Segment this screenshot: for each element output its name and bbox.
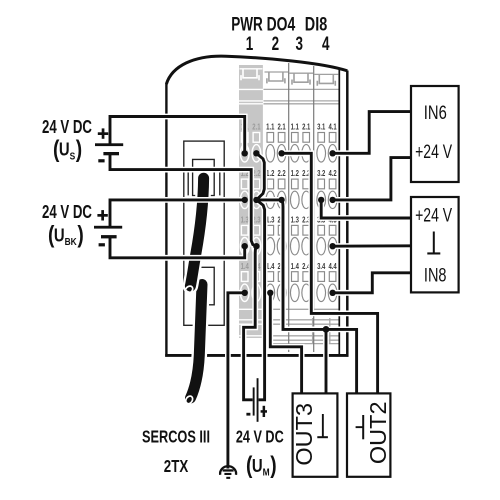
svg-text:4.2: 4.2 (328, 168, 336, 178)
svg-text:3.1: 3.1 (317, 121, 325, 131)
svg-text:4.1: 4.1 (328, 121, 336, 131)
svg-text:1.2: 1.2 (266, 168, 274, 178)
svg-text:1.1: 1.1 (266, 121, 274, 131)
svg-text:U: U (59, 139, 70, 160)
svg-text:1.4: 1.4 (241, 261, 250, 271)
svg-text:3.2: 3.2 (317, 168, 325, 178)
svg-text:IN6: IN6 (424, 102, 447, 123)
svg-text:): ) (270, 451, 276, 479)
svg-text:1.4: 1.4 (266, 261, 275, 271)
svg-text:DO4: DO4 (267, 13, 296, 35)
svg-text:1.4: 1.4 (291, 261, 300, 271)
svg-text:1.3: 1.3 (241, 214, 249, 224)
svg-text:24 V DC: 24 V DC (42, 202, 92, 223)
svg-text:2TX: 2TX (164, 457, 189, 476)
svg-text:3.4: 3.4 (317, 261, 326, 271)
svg-text:24 V DC: 24 V DC (236, 428, 284, 448)
svg-text:OUT3: OUT3 (291, 403, 317, 466)
svg-text:2.1: 2.1 (302, 121, 310, 131)
svg-text:1.3: 1.3 (291, 214, 299, 224)
svg-text:OUT2: OUT2 (365, 401, 391, 464)
svg-text:): ) (77, 221, 83, 249)
svg-text:S: S (70, 151, 76, 163)
svg-text:24 V DC: 24 V DC (42, 117, 92, 138)
svg-text:M: M (263, 467, 270, 479)
svg-text:2: 2 (272, 32, 279, 54)
svg-text:4: 4 (322, 32, 330, 54)
svg-text:2.2: 2.2 (277, 168, 285, 178)
svg-text:1: 1 (246, 32, 253, 54)
svg-text:+24 V: +24 V (415, 204, 453, 226)
svg-text:SERCOS III: SERCOS III (142, 428, 210, 448)
svg-text:2.1: 2.1 (277, 121, 285, 131)
svg-text:4.4: 4.4 (328, 261, 337, 271)
svg-text:BK: BK (65, 236, 77, 248)
svg-text:U: U (54, 225, 65, 246)
svg-text:1.2: 1.2 (291, 168, 299, 178)
svg-text:1.1: 1.1 (291, 121, 299, 131)
svg-text:2.1: 2.1 (252, 121, 260, 131)
svg-text:IN8: IN8 (424, 265, 447, 286)
svg-text:): ) (76, 135, 82, 163)
svg-text:+24 V: +24 V (415, 141, 453, 163)
svg-text:U: U (252, 455, 263, 476)
svg-text:3: 3 (295, 32, 302, 54)
